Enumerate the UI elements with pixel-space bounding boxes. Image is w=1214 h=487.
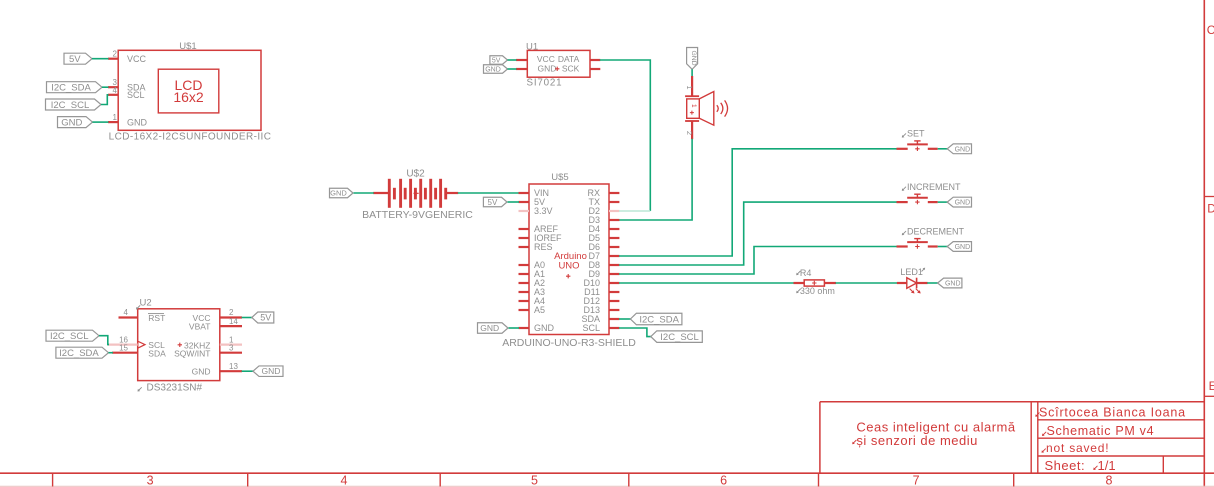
svg-text:1: 1 xyxy=(690,104,697,108)
wire U$5 D10 to R4 xyxy=(619,282,794,284)
net label I2C_SDA (U2) xyxy=(56,347,109,359)
svg-text:I2C_SDA: I2C_SDA xyxy=(59,348,99,359)
svg-text:VCC: VCC xyxy=(537,54,555,64)
svg-text:GND: GND xyxy=(955,244,971,251)
ground flag GND (U1) xyxy=(484,65,508,74)
svg-text:4: 4 xyxy=(113,86,118,95)
wire U$5 D2 to U1 DATA (pale) xyxy=(619,210,650,212)
svg-text:5V: 5V xyxy=(488,198,498,207)
U2 pin 15 SDA xyxy=(112,344,138,353)
ground flag GND (speaker, vertical) xyxy=(687,48,698,70)
svg-text:GND: GND xyxy=(945,280,961,287)
svg-text:GND: GND xyxy=(485,66,501,73)
wire LED1 to GND xyxy=(927,282,938,284)
wire I2C_SCL to U$1 SCL xyxy=(101,95,109,105)
svg-text:GND: GND xyxy=(330,189,347,198)
svg-text:Scîrtocea Bianca Ioana: Scîrtocea Bianca Ioana xyxy=(1039,406,1186,420)
svg-text:4: 4 xyxy=(124,308,129,317)
svg-text:U1: U1 xyxy=(526,41,538,52)
svg-text:și senzori de mediu: și senzori de mediu xyxy=(856,433,978,448)
U1 pin SCK stub xyxy=(590,68,600,70)
wire battery plus to U$5 VIN xyxy=(458,192,519,194)
wire I2C_SDA to U$1 SDA xyxy=(102,86,109,88)
U2 pin 1 32KHZ (pale) xyxy=(220,335,242,344)
net label I2C_SDA (U$1) xyxy=(47,82,103,94)
speaker sound waves xyxy=(717,100,728,116)
title text: project name xyxy=(852,419,1016,448)
svg-text:SDA: SDA xyxy=(148,348,166,358)
wire U$5 to DECREMENT switch xyxy=(619,247,897,275)
wire 5V to U1 VCC xyxy=(508,59,517,61)
U$1 pin 1 GND xyxy=(108,113,118,122)
svg-text:13: 13 xyxy=(229,362,238,371)
ground flag GND (U$1) xyxy=(58,117,93,129)
svg-text:LCD-16X2-I2CSUNFOUNDER-IIC: LCD-16X2-I2CSUNFOUNDER-IIC xyxy=(109,132,272,143)
svg-text:U$2: U$2 xyxy=(406,168,425,179)
svg-text:U$1: U$1 xyxy=(179,41,196,52)
svg-text:14: 14 xyxy=(229,317,238,326)
svg-text:SET: SET xyxy=(907,129,925,139)
speaker SP body xyxy=(687,92,714,126)
wire 5V to U$1 VCC xyxy=(92,58,109,60)
svg-text:I2C_SCL: I2C_SCL xyxy=(660,332,699,343)
svg-text:1: 1 xyxy=(113,113,118,122)
svg-text:I2C_SDA: I2C_SDA xyxy=(639,314,679,325)
svg-text:RES: RES xyxy=(534,242,553,252)
svg-text:4: 4 xyxy=(341,474,348,487)
title block xyxy=(820,402,1204,473)
speaker SP pin 2 xyxy=(685,121,699,139)
U2 pin 14 VBAT xyxy=(220,317,242,326)
board U$5 ARDUINO-UNO-R3-SHIELD xyxy=(502,172,636,349)
svg-text:GND: GND xyxy=(262,366,281,376)
svg-text:7: 7 xyxy=(913,474,920,487)
net label I2C_SCL (U$1) xyxy=(46,99,102,111)
supply flag 5V (U$5) xyxy=(483,197,507,207)
wire I2C_SCL to U2 SCL xyxy=(99,336,109,345)
wire SET to GND xyxy=(938,148,948,150)
svg-text:2: 2 xyxy=(113,50,118,59)
wire GND to U1 GND xyxy=(508,68,517,70)
IC U$1 LCD-16X2 I2C module xyxy=(109,41,272,143)
svg-text:BATTERY-9VGENERIC: BATTERY-9VGENERIC xyxy=(362,209,473,221)
U1 pin VCC stub xyxy=(516,59,527,61)
svg-text:VCC: VCC xyxy=(127,54,147,64)
svg-text:DECREMENT: DECREMENT xyxy=(907,226,965,236)
net label I2C_SCL (U$5) xyxy=(651,331,703,343)
svg-text:3.3V: 3.3V xyxy=(534,206,553,216)
supply flag 5V (U1) xyxy=(490,56,508,65)
title text: saved state xyxy=(1042,441,1110,455)
svg-text:SCL: SCL xyxy=(127,90,145,100)
svg-text:I2C_SCL: I2C_SCL xyxy=(50,331,89,342)
svg-text:GND: GND xyxy=(955,200,971,207)
svg-text:Sheet:: Sheet: xyxy=(1045,458,1086,473)
U1 pin GND stub xyxy=(516,68,527,70)
wire U1 DATA to U$5 D2 (vertical) xyxy=(600,60,651,211)
supply flag 5V (U$1) xyxy=(64,53,92,65)
speaker SP pin 1 xyxy=(685,76,699,96)
svg-text:SI7021: SI7021 xyxy=(527,77,563,88)
ground flag GND (INCREMENT) xyxy=(947,197,971,207)
pushbutton DECREMENT xyxy=(897,226,965,248)
ground flag GND (U2) xyxy=(253,366,283,377)
svg-text:GND: GND xyxy=(127,117,148,127)
U$1 pin 4 SCL xyxy=(108,86,118,95)
ground flag GND (battery) xyxy=(330,188,354,198)
U2 pin 16 SCL (pale) xyxy=(108,335,138,344)
svg-text:GND: GND xyxy=(534,323,555,333)
battery left pin stub xyxy=(373,192,389,194)
svg-text:VBAT: VBAT xyxy=(189,321,211,331)
frame bottom border with column numbers xyxy=(0,473,1214,487)
svg-text:GND: GND xyxy=(61,117,82,128)
U$5 left pin stubs xyxy=(519,193,530,328)
svg-text:U$5: U$5 xyxy=(551,172,568,183)
net label I2C_SDA (U$5) xyxy=(630,313,682,325)
title text: author xyxy=(1035,406,1186,420)
svg-text:GND: GND xyxy=(192,366,211,376)
U2 pin 13 GND xyxy=(220,362,242,371)
svg-text:R4: R4 xyxy=(800,268,812,278)
wire GND to battery minus xyxy=(354,192,374,194)
svg-text:A5: A5 xyxy=(534,305,545,315)
ground flag GND (LED1) xyxy=(938,278,962,288)
svg-text:3: 3 xyxy=(229,343,234,352)
svg-text:330 ohm: 330 ohm xyxy=(800,286,835,296)
svg-text:1: 1 xyxy=(685,85,694,89)
title text: sheet xyxy=(1045,458,1116,473)
resistor R4 330 ohm xyxy=(794,268,837,296)
svg-text:8: 8 xyxy=(1106,474,1113,487)
svg-text:GND: GND xyxy=(480,323,499,333)
svg-text:INCREMENT: INCREMENT xyxy=(907,182,961,192)
wire DECREMENT to GND xyxy=(938,246,948,248)
svg-text:SCL: SCL xyxy=(582,323,600,333)
net label I2C_SCL (U2) xyxy=(46,330,99,342)
sensor U1 SI7021 xyxy=(526,41,590,88)
svg-text:5: 5 xyxy=(531,474,538,487)
svg-text:Schematic PM v4: Schematic PM v4 xyxy=(1047,424,1155,438)
wire INCREMENT to GND xyxy=(938,201,948,203)
svg-text:GND: GND xyxy=(955,146,971,153)
wire U$5 to SET switch xyxy=(619,149,897,256)
svg-text:5V: 5V xyxy=(260,313,271,323)
wire U2 VCC to 5V flag xyxy=(242,317,253,319)
svg-text:GND: GND xyxy=(690,50,697,65)
svg-text:2: 2 xyxy=(685,131,694,135)
wire U2 GND to GND flag xyxy=(242,370,254,372)
title text: document xyxy=(1042,424,1154,438)
svg-text:E: E xyxy=(1209,379,1214,393)
wire GND flag to speaker pin 1 xyxy=(691,69,693,76)
svg-text:SQW/INT: SQW/INT xyxy=(174,349,210,359)
svg-text:5V: 5V xyxy=(492,57,501,64)
svg-text:D: D xyxy=(1207,202,1214,216)
svg-text:16x2: 16x2 xyxy=(173,89,204,105)
ground flag GND (SET) xyxy=(947,144,971,154)
wire R4 to LED1 xyxy=(836,282,898,284)
svg-text:15: 15 xyxy=(119,344,128,353)
svg-text:not saved!: not saved! xyxy=(1046,441,1109,455)
wire U$5 SDA to I2C_SDA label xyxy=(619,318,631,320)
svg-text:I2C_SDA: I2C_SDA xyxy=(51,83,91,94)
svg-text:LED1: LED1 xyxy=(900,267,923,277)
wire GND to U$1 GND xyxy=(93,121,109,123)
svg-text:UNO: UNO xyxy=(558,261,579,272)
wire I2C_SDA to U2 SDA xyxy=(109,352,114,354)
pushbutton INCREMENT xyxy=(897,182,962,204)
ground flag GND (DECREMENT) xyxy=(947,242,971,252)
svg-text:6: 6 xyxy=(720,474,727,487)
RTC U2 DS3231SN xyxy=(136,298,220,394)
svg-text:RST: RST xyxy=(148,313,165,323)
wire U$5 SCL to I2C_SCL label xyxy=(619,328,652,337)
frame right border with row letters xyxy=(1204,0,1214,487)
U2 pin 2 VCC xyxy=(220,308,242,317)
svg-text:Ceas inteligent cu alarmă: Ceas inteligent cu alarmă xyxy=(856,419,1015,434)
wire GND to U$5 GND xyxy=(509,327,520,329)
ground flag GND (U$5) xyxy=(478,323,509,334)
LED LED1 xyxy=(897,267,928,294)
svg-text:3: 3 xyxy=(147,474,154,487)
supply flag 5V (U2) xyxy=(252,312,274,323)
svg-text:C: C xyxy=(1207,23,1214,37)
U2 pin 3 SQW/INT xyxy=(220,343,242,352)
svg-text:SCK: SCK xyxy=(562,64,580,74)
U$1 pin 3 SDA xyxy=(108,78,118,87)
battery right pin stub xyxy=(446,192,459,194)
wire speaker pin2 to U$5 D3 xyxy=(619,139,692,220)
wire 5V to U$5 5V xyxy=(508,201,520,203)
svg-text:1/1: 1/1 xyxy=(1098,458,1116,473)
svg-text:DATA: DATA xyxy=(558,54,580,64)
svg-text:5V: 5V xyxy=(69,54,81,65)
svg-text:DS3231SN#: DS3231SN# xyxy=(147,382,203,393)
wire U$5 to INCREMENT switch xyxy=(619,202,897,265)
svg-text:ARDUINO-UNO-R3-SHIELD: ARDUINO-UNO-R3-SHIELD xyxy=(502,337,636,349)
pushbutton SET xyxy=(897,129,938,151)
svg-text:GND: GND xyxy=(538,64,557,74)
battery U$2 BATTERY-9V xyxy=(362,168,473,221)
U$1 pin 2 VCC xyxy=(108,50,118,59)
U2 pin 4 RST xyxy=(119,308,138,317)
U$5 right pin stubs xyxy=(609,193,619,328)
svg-text:U2: U2 xyxy=(140,298,152,309)
U1 pin DATA stub xyxy=(590,59,600,61)
svg-text:I2C_SCL: I2C_SCL xyxy=(51,100,90,111)
